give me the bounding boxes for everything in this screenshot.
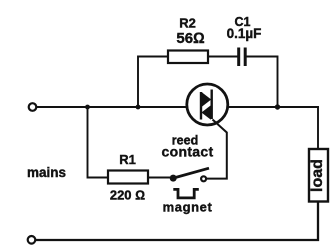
svg-text:56Ω: 56Ω xyxy=(176,30,204,47)
junction: snubber right return xyxy=(275,104,280,109)
magnet symbol xyxy=(173,189,199,198)
wire: top rail from terminal to triac xyxy=(37,106,189,108)
wire: snubber riser and link to R2 xyxy=(138,57,169,108)
wire: C1 drop to main rail xyxy=(247,57,278,108)
svg-text:mains: mains xyxy=(27,165,66,180)
svg-text:0.1µF: 0.1µF xyxy=(227,26,262,41)
svg-text:load: load xyxy=(309,159,326,192)
wire: triac gate lead xyxy=(207,120,227,179)
terminal: mains top xyxy=(29,103,37,111)
wire: R1 branch drop xyxy=(88,107,110,178)
resistor R2 xyxy=(168,51,208,64)
wire: load to bottom rail and bottom rail to terminal xyxy=(36,202,319,241)
wire: load riser xyxy=(317,106,319,150)
wire: top rail from triac to load corner xyxy=(227,106,319,108)
junction: snubber branch tap xyxy=(136,105,141,110)
junction: R1 branch tap xyxy=(85,105,90,110)
svg-text:R2: R2 xyxy=(179,16,196,31)
wire: R2 to C1 xyxy=(208,56,238,58)
triac U1 xyxy=(187,84,228,125)
reed contact S1 xyxy=(170,168,209,181)
svg-text:R1: R1 xyxy=(119,152,136,167)
wire: R1 to reed contact xyxy=(148,177,170,179)
capacitor C1 xyxy=(239,48,246,67)
svg-text:magnet: magnet xyxy=(163,200,213,215)
load xyxy=(309,149,328,202)
resistor R1 xyxy=(108,171,148,184)
svg-text:contact: contact xyxy=(162,144,214,160)
terminal: mains bottom xyxy=(28,236,36,244)
svg-text:220 Ω: 220 Ω xyxy=(110,188,145,203)
